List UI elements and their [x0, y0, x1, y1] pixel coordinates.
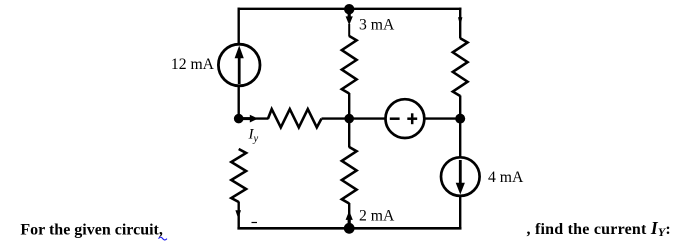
wire top rail	[238, 8, 462, 10]
svg-text:For the given circuit,: For the given circuit,	[20, 221, 163, 238]
resistor R right	[453, 38, 468, 96]
wire horizontal resistor to voltage source	[322, 117, 386, 119]
wire bottom rail	[237, 227, 461, 230]
wire right resistor to node	[459, 96, 461, 120]
node bottom junction	[344, 223, 355, 234]
voltage source U1 (&#8722; +)	[386, 99, 425, 138]
arrow 2 mA current direction	[346, 211, 353, 227]
node left junction	[234, 114, 244, 124]
arrow 3 mA current direction	[346, 11, 353, 25]
current source I1 12 mA	[218, 44, 260, 86]
wire left resistor to bottom rail	[237, 202, 239, 230]
wire middle rail mid	[348, 93, 350, 148]
arrow right-branch current direction	[458, 17, 462, 26]
wire middle resistor top to arrow	[348, 24, 350, 37]
wire voltage source to right node	[424, 117, 460, 119]
arrow left-branch current direction	[235, 210, 241, 218]
resistor R middle bottom	[342, 147, 357, 204]
squiggle spellcheck underline	[159, 237, 167, 240]
resistor R left	[231, 149, 246, 202]
node right junction	[455, 114, 465, 124]
node middle junction	[344, 114, 354, 124]
wire 4 mA source to bottom rail	[459, 196, 461, 230]
svg-text:Iy: Iy	[248, 127, 259, 145]
node top-center junction	[344, 4, 354, 14]
svg-text:2 mA: 2 mA	[359, 208, 395, 225]
svg-text:3 mA: 3 mA	[359, 16, 395, 33]
label minus polarity	[252, 222, 258, 224]
wire left node to horizontal resistor	[239, 117, 269, 119]
resistor R horizontal	[268, 109, 322, 127]
svg-text:12 mA: 12 mA	[171, 56, 215, 73]
wire middle resistor bottom to bottom rail	[348, 203, 350, 228]
wire right node to 4 mA source	[459, 119, 461, 158]
svg-text:4 mA: 4 mA	[488, 169, 524, 186]
wire right rail upper	[459, 8, 461, 39]
wire left rail mid	[237, 86, 239, 120]
resistor R middle top	[342, 36, 357, 94]
svg-text:, find the current IY:: , find the current IY:	[527, 218, 671, 239]
current source I2 4 mA	[441, 157, 480, 196]
wire left rail upper	[237, 8, 239, 45]
arrow Iy current direction	[242, 115, 258, 123]
